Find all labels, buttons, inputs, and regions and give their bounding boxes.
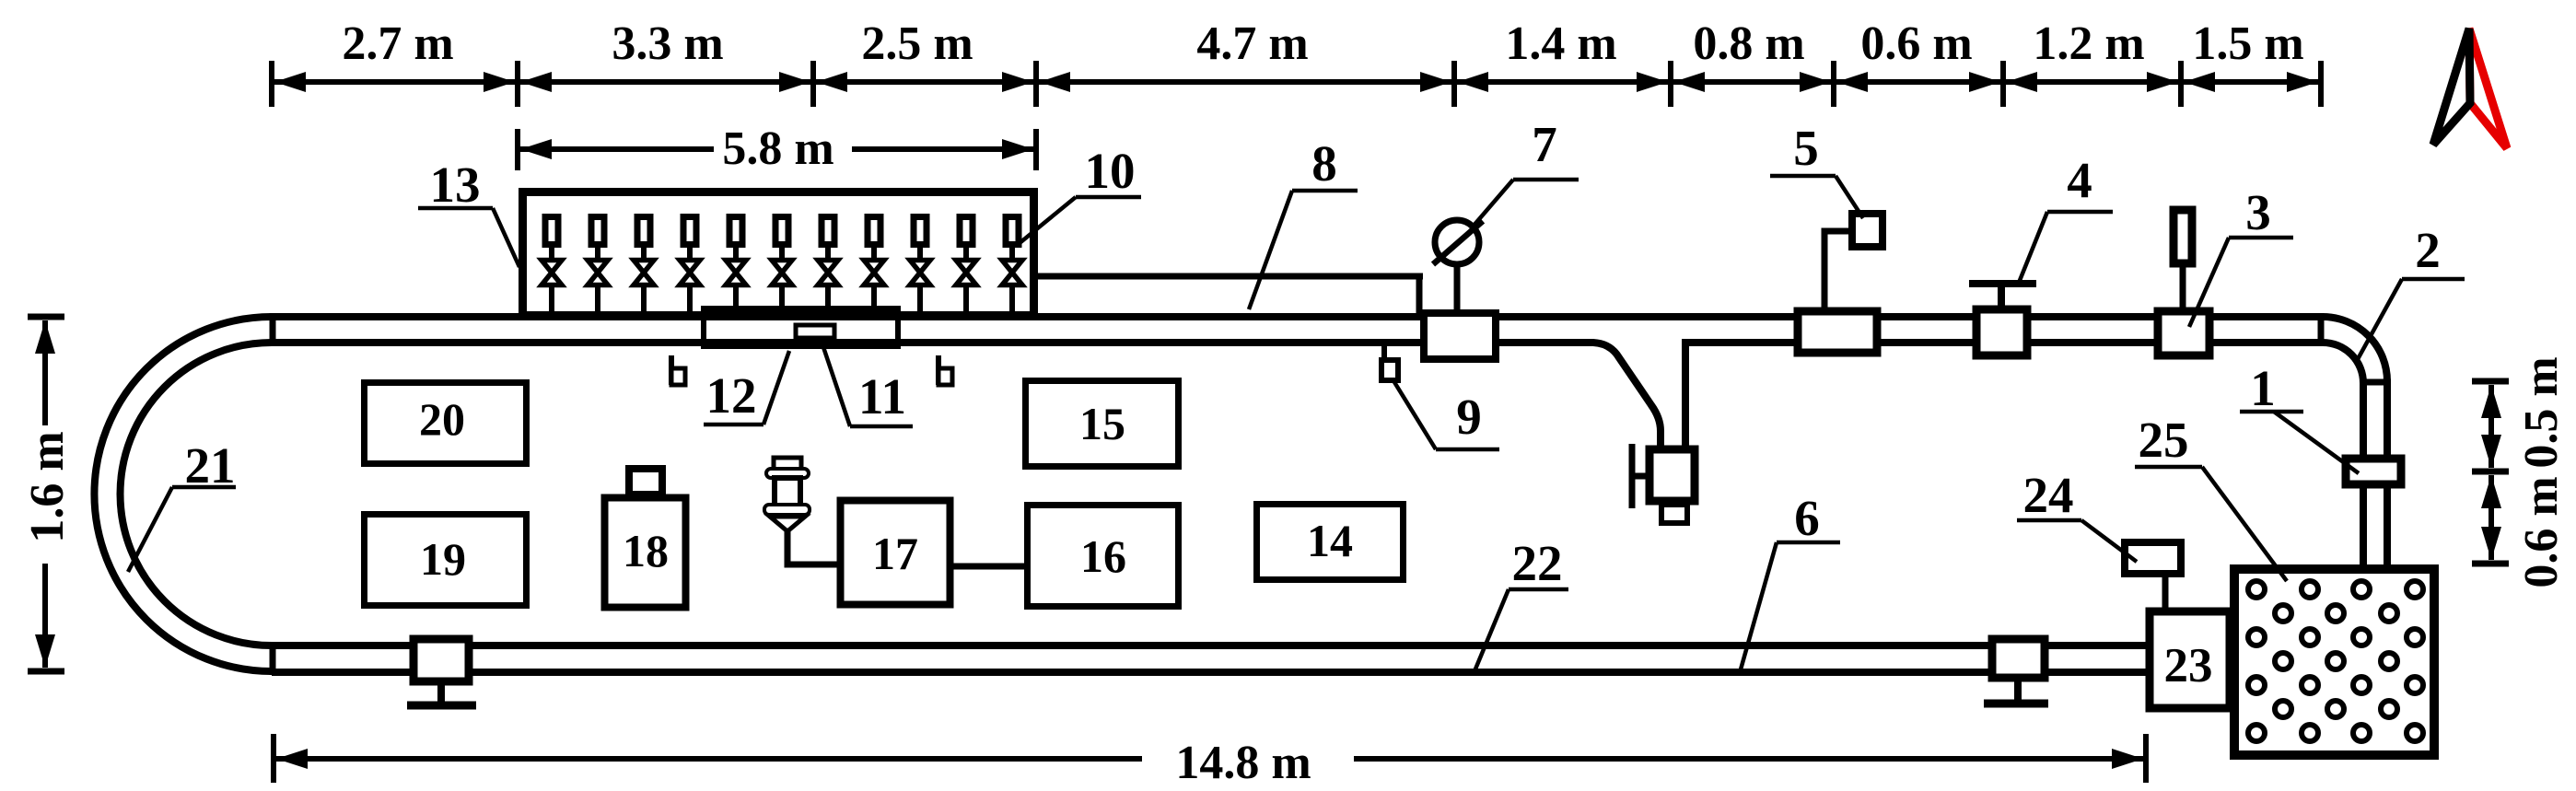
label 11: [822, 342, 913, 426]
svg-text:13: 13: [430, 157, 481, 213]
svg-text:22: 22: [1512, 535, 1563, 591]
component 5 box: [1852, 214, 1882, 247]
meter box under gauge 7: [1424, 313, 1496, 359]
component 1 box: [2346, 459, 2401, 484]
top dimension chain ticks: [269, 61, 274, 107]
svg-text:2.5 m: 2.5 m: [861, 17, 973, 70]
label 6: [1741, 490, 1840, 669]
svg-text:18: 18: [623, 525, 669, 576]
label 21: [128, 437, 236, 572]
svg-text:2.7 m: 2.7 m: [342, 17, 453, 70]
pipe 8 duct top line: [1035, 273, 1423, 280]
valve 6 of manifold: [772, 217, 792, 318]
joint seam bottom-left: [270, 642, 276, 675]
dimension segment 0.6 m: [1836, 79, 2000, 85]
label 4: [2019, 152, 2113, 283]
wire 17 to 16: [950, 564, 1028, 570]
pump box: [1649, 449, 1695, 501]
svg-text:11: 11: [858, 368, 906, 425]
label 1: [2240, 360, 2359, 473]
gauge 7 stem: [1454, 262, 1461, 313]
perforated box 25: [2234, 569, 2434, 755]
wire left loop curve inner: [121, 343, 272, 646]
sensor 9 body: [1381, 360, 1398, 380]
wire bottom pipe lower line: [272, 669, 2146, 676]
gauge 7 needle diagonal: [1433, 221, 1483, 264]
label 7: [1474, 116, 1579, 226]
svg-text:5.8 m: 5.8 m: [722, 122, 833, 175]
box 3 on pipe: [2158, 311, 2209, 355]
pipe 8 duct right drop: [1416, 273, 1423, 313]
label 22: [1474, 535, 1568, 671]
box 20: [365, 383, 527, 464]
pump left bracket bar: [1629, 444, 1636, 508]
dimension 14.8 m: [271, 734, 276, 783]
manifold box 13: [523, 192, 1034, 316]
box 23: [2150, 611, 2230, 708]
wire branch to pump curved drop: [1582, 343, 1661, 451]
box 19: [365, 515, 527, 606]
injector nozzle: [764, 458, 840, 564]
valve 2 of manifold: [588, 217, 608, 318]
dimension 5.8 m: [515, 129, 520, 170]
valve 1 of manifold: [542, 217, 562, 318]
valve 3 of manifold: [634, 217, 654, 318]
svg-text:0.5 m: 0.5 m: [2515, 356, 2568, 468]
valve 8 of manifold: [864, 217, 884, 318]
wire left loop curve outer: [94, 317, 272, 671]
box 24: [2125, 542, 2181, 574]
svg-text:15: 15: [1079, 398, 1125, 449]
north arrow red half: [2469, 29, 2507, 148]
svg-text:1.5 m: 1.5 m: [2192, 17, 2303, 70]
valve 9 of manifold: [910, 217, 930, 318]
dimension segment 0.8 m: [1673, 79, 1831, 85]
dimension segment 1.2 m: [2006, 79, 2178, 85]
dimension segment 2.7 m: [274, 79, 515, 85]
thermometer 3 stem: [2180, 265, 2186, 311]
test section 12: [704, 308, 898, 346]
box 18 cap: [629, 469, 662, 494]
dimension 0.5 m / 0.6 m: [2472, 378, 2509, 385]
svg-text:25: 25: [2139, 412, 2189, 468]
svg-text:0.6 m: 0.6 m: [1860, 17, 1972, 70]
north arrow black half: [2433, 29, 2470, 145]
svg-text:14: 14: [1307, 515, 1353, 566]
svg-text:23: 23: [2164, 639, 2213, 692]
svg-text:4.7 m: 4.7 m: [1196, 17, 1308, 70]
label 2: [2358, 222, 2465, 359]
wire bottom pipe upper line: [272, 642, 2146, 649]
svg-text:1.6 m: 1.6 m: [21, 431, 74, 542]
valve 11 of manifold: [1002, 217, 1022, 318]
svg-text:3.3 m: 3.3 m: [612, 17, 723, 70]
hook bracket right: [938, 355, 952, 385]
svg-text:14.8 m: 14.8 m: [1175, 737, 1311, 789]
svg-text:2: 2: [2415, 222, 2441, 278]
label 8: [1249, 135, 1358, 309]
dimension segment 1.5 m: [2184, 79, 2318, 85]
valve 4 body box: [1976, 309, 2027, 355]
svg-text:10: 10: [1085, 143, 1136, 199]
dimension segment 1.4 m: [1457, 79, 1668, 85]
box 16: [1028, 506, 1179, 607]
valve 10 of manifold: [956, 217, 976, 318]
wire right vertical pipe inner line: [2360, 382, 2367, 568]
label 24: [2017, 467, 2137, 562]
svg-text:5: 5: [1793, 120, 1819, 176]
perforation circles 25: [2248, 581, 2423, 741]
svg-text:16: 16: [1080, 530, 1126, 582]
valve 4 handle bar: [1969, 280, 2036, 287]
wire top pipe upper line: [270, 313, 1420, 320]
svg-text:8: 8: [1311, 135, 1337, 192]
label 9: [1394, 382, 1499, 449]
box 17: [841, 501, 950, 605]
wire branch to pump straight drop: [1685, 343, 1794, 449]
hook bracket left: [671, 355, 685, 385]
pump left bracket tick: [1632, 473, 1649, 480]
svg-text:7: 7: [1532, 116, 1557, 172]
wire top pipe lower line: [270, 339, 1420, 346]
valve 4 of manifold: [680, 217, 700, 318]
valve 5 of manifold: [726, 217, 746, 318]
thermometer 3 bulb: [2174, 210, 2192, 263]
label 25: [2135, 412, 2287, 581]
support right: [1984, 639, 2048, 704]
svg-text:3: 3: [2245, 184, 2271, 240]
svg-text:1: 1: [2250, 360, 2276, 416]
corner 2 inner arc: [2323, 343, 2363, 383]
svg-text:6: 6: [1794, 490, 1820, 546]
label 3: [2189, 184, 2293, 327]
dimension segment 4.7 m: [1039, 79, 1451, 85]
joint seam top-left: [270, 313, 276, 346]
wire right vertical pipe outer line: [2384, 381, 2391, 568]
label 12: [704, 351, 789, 425]
junction box under 5: [1798, 311, 1877, 353]
svg-text:0.6 m: 0.6 m: [2515, 476, 2568, 587]
box 15: [1026, 381, 1179, 467]
support left: [407, 639, 476, 705]
svg-text:20: 20: [419, 393, 465, 445]
label 13: [418, 157, 519, 267]
box 18 body: [605, 498, 686, 608]
svg-text:24: 24: [2023, 467, 2074, 523]
box 24 stem: [2162, 573, 2169, 611]
svg-text:1.2 m: 1.2 m: [2033, 17, 2144, 70]
pump outlet square: [1661, 505, 1687, 523]
pressure gauge 7 circle: [1435, 220, 1479, 264]
label 10: [1020, 143, 1141, 243]
joint seam below corner: [2360, 379, 2391, 386]
sensor 9 stem: [1381, 343, 1387, 361]
valve 4 stem: [1998, 284, 2005, 309]
svg-text:9: 9: [1456, 389, 1482, 445]
dimension segment 2.5 m: [816, 79, 1033, 85]
label 5: [1770, 120, 1863, 218]
valve 7 of manifold: [818, 217, 838, 318]
insert 11: [796, 325, 834, 338]
box 14: [1257, 505, 1404, 580]
dimension 1.6 m: [28, 314, 64, 320]
corner 2 outer arc: [2323, 317, 2387, 381]
svg-text:17: 17: [872, 528, 918, 579]
svg-text:19: 19: [420, 533, 466, 585]
dimension segment 3.3 m: [520, 79, 810, 85]
svg-text:1.4 m: 1.4 m: [1505, 17, 1616, 70]
joint seam before corner: [2318, 313, 2325, 346]
svg-text:12: 12: [706, 367, 757, 424]
svg-text:4: 4: [2067, 152, 2092, 208]
svg-text:0.8 m: 0.8 m: [1693, 17, 1804, 70]
component 5 wire: [1824, 231, 1848, 311]
